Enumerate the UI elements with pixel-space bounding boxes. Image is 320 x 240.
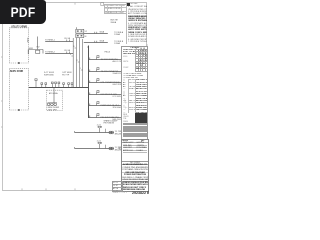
- lower circuit 1 riser stub: [105, 129, 107, 133]
- left branch wire 2 at y53.5: [45, 53, 73, 55]
- right branch wire 2 at y42.5: [84, 42, 108, 44]
- feeder breaker CB1: [90, 56, 99, 60]
- svg-text:UTIL 75KVA TYP FDR: UTIL 75KVA TYP FDR: [101, 81, 120, 84]
- svg-text:UTILITY XFMR: UTILITY XFMR: [11, 26, 27, 28]
- right branch wire 1 at y33.5: [84, 33, 108, 35]
- main 480V bus wire: [29, 87, 89, 89]
- svg-text:2000A: 2000A: [111, 21, 117, 24]
- feeder breaker CB4: [90, 91, 99, 95]
- transformer T1 symbol: [109, 131, 113, 134]
- svg-text:480V: 480V: [27, 37, 29, 42]
- general notes block: [126, 3, 147, 44]
- main breaker cubicle boxes 52-1: [76, 27, 84, 37]
- switch ticks on right branch 1: [95, 32, 97, 34]
- svg-text:SERV XFMR: SERV XFMR: [10, 71, 24, 73]
- cluster inner marks: [77, 30, 82, 36]
- feeder tap wire 2: [88, 71, 121, 73]
- title block left extension (drawn/checked grid): [112, 181, 123, 193]
- svg-text:FU TYP: FU TYP: [62, 74, 70, 76]
- lower circuit 2 riser stub: [105, 145, 107, 149]
- svg-text:600A: 600A: [100, 40, 105, 43]
- svg-text:FU 2A: FU 2A: [65, 49, 71, 52]
- svg-text:FU: FU: [37, 46, 40, 48]
- utility transformer enclosure box 2 (dashed): [9, 69, 28, 110]
- frame tick marks: [1, 3, 148, 191]
- svg-text:2: 2: [77, 60, 78, 62]
- svg-text:480V 3PH: 480V 3PH: [48, 109, 58, 111]
- small revision box under top border: [101, 3, 104, 6]
- riser wire B (x76.3): [75, 38, 77, 87]
- legend / schedule table: [121, 46, 148, 140]
- svg-text:PROVISION: PROVISION: [104, 123, 115, 125]
- vertical feeder bus wire: [88, 46, 90, 119]
- lower circuit wire 1: [75, 132, 114, 134]
- switch ticks on right branch 2: [95, 41, 97, 43]
- feeder bus top tick: [87, 46, 89, 48]
- feeder tap wire 5: [88, 105, 121, 107]
- svg-text:PNL BUS 200AF PNL: PNL BUS 200AF PNL: [101, 116, 119, 119]
- left branch wire 1 at y41.5: [45, 41, 73, 43]
- feeder breaker CB6: [90, 114, 99, 118]
- svg-text:3W FDR XFMR PNL: 3W FDR XFMR PNL: [101, 59, 118, 61]
- transformer T2 symbol: [109, 147, 113, 150]
- feeder tap wire 6: [88, 117, 121, 119]
- feeder tap wire 3: [88, 82, 121, 84]
- revision history table: [104, 4, 127, 14]
- fuse ticks on left branch 2: [67, 52, 70, 54]
- riser wire C (x79.5): [79, 38, 81, 87]
- engineer stamp mark: [117, 146, 121, 152]
- feeder tap wire 4: [88, 94, 121, 96]
- PDF badge overlay: [0, 0, 46, 24]
- riser conductor tick marks: [71, 48, 82, 70]
- feeder tap wire 1: [88, 59, 121, 61]
- svg-text:PUMP 60HZ CB LP-2: PUMP 60HZ CB LP-2: [101, 105, 119, 107]
- riser wire D (x82.6): [82, 39, 84, 87]
- lower circuit 2 fused switch: [98, 142, 102, 148]
- feeder breaker CB5: [90, 102, 99, 106]
- feeder breaker CB3: [90, 79, 99, 83]
- svg-text:TIE 3PH 75KVA TYP: TIE 3PH 75KVA TYP: [101, 70, 119, 73]
- lower circuit 1 left end tick: [74, 131, 76, 133]
- disconnect switch SW1 body: [36, 50, 40, 53]
- svg-text:LP-2 GEN: LP-2 GEN: [113, 96, 122, 98]
- lower circuit 2 left end tick: [74, 147, 76, 149]
- svg-text:600A: 600A: [100, 31, 105, 34]
- node dot bottom of box 1: [18, 62, 20, 64]
- title block: [121, 139, 148, 193]
- generator G1 symbol circles: [47, 103, 57, 106]
- svg-text:1200A: 1200A: [114, 33, 120, 36]
- svg-text:1: 1: [80, 68, 81, 70]
- node dot bottom of box 2: [18, 109, 20, 111]
- svg-text:PNL A: PNL A: [105, 50, 111, 53]
- svg-text:FU 2A: FU 2A: [65, 37, 71, 40]
- border frame of drawing sheet: [3, 3, 147, 191]
- lower circuit 1 fused switch: [98, 126, 102, 132]
- fuse ticks on left branch 1: [67, 40, 70, 42]
- feeder breaker CB2: [90, 68, 99, 72]
- utility transformer enclosure box 1 (dashed): [9, 28, 28, 63]
- wire from bus into generator box: [53, 87, 55, 103]
- generator enclosure dashed box: [47, 90, 63, 110]
- bus stub with PT at x36: [35, 79, 37, 87]
- svg-text:1200A: 1200A: [114, 42, 120, 45]
- svg-text:3: 3: [73, 46, 74, 48]
- svg-text:TO MSB-1: TO MSB-1: [45, 40, 56, 42]
- sheet number text below frame: [132, 191, 154, 195]
- svg-text:4: 4: [70, 54, 71, 56]
- svg-text:2-#4: 2-#4: [97, 125, 101, 127]
- svg-text:M: M: [85, 36, 87, 38]
- instrument stubs on main bus: [41, 82, 73, 87]
- svg-text:FDR 3W FDR GEN: FDR 3W FDR GEN: [101, 94, 118, 96]
- svg-text:2-#4: 2-#4: [97, 141, 101, 143]
- svg-text:TO MSB-2: TO MSB-2: [45, 52, 56, 54]
- svg-text:ATS 400A: ATS 400A: [49, 92, 58, 95]
- lower circuit wire 2: [75, 148, 114, 150]
- wire from box1 to disconnect switch SW1: [28, 37, 43, 55]
- riser wire A (x73.2): [72, 38, 74, 87]
- svg-text:52: 52: [85, 31, 88, 33]
- svg-text:KWH DMD: KWH DMD: [44, 74, 54, 76]
